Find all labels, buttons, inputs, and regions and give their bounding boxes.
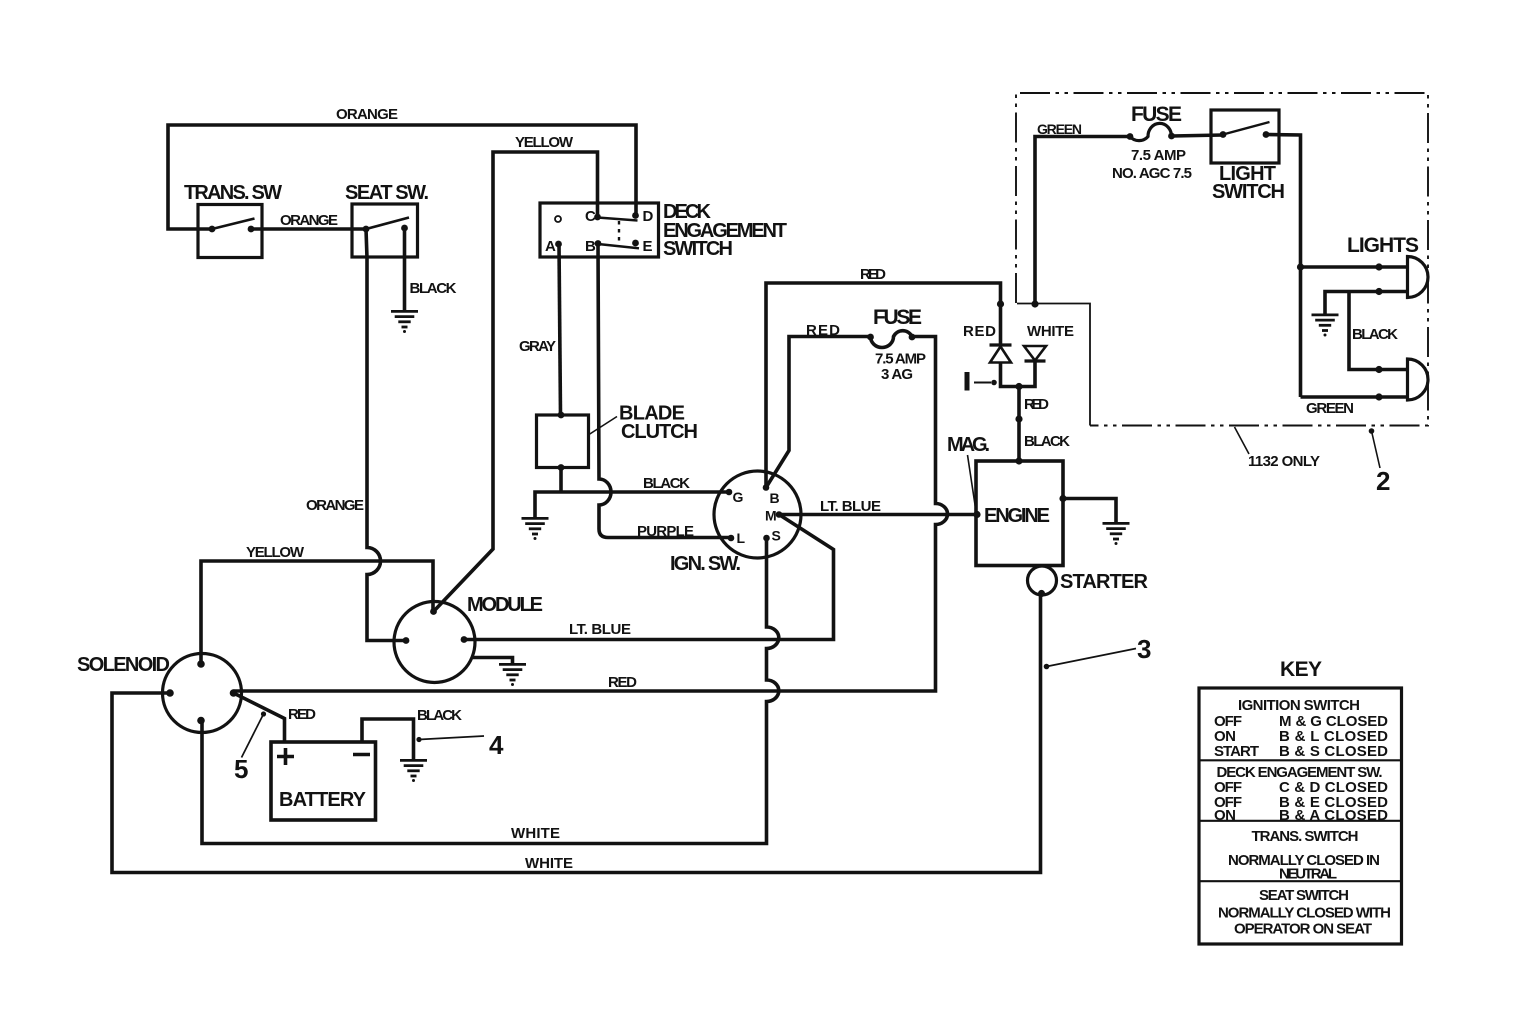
svg-text:G: G [733,489,744,505]
component BLADE CLUTCH box [537,403,699,471]
ground (engine) [1103,523,1130,545]
callout 5 leader [234,711,266,784]
diode D-white (WHITE wire) [1024,323,1074,361]
svg-text:STARTER: STARTER [1060,571,1149,593]
svg-text:FUSE: FUSE [873,306,922,329]
starter STARTER circle [1028,566,1149,597]
svg-text:RED: RED [860,266,886,283]
svg-text:SEAT SWITCH: SEAT SWITCH [1259,887,1349,904]
svg-text:RED: RED [608,674,637,691]
switch LIGHT SWITCH box [1211,110,1285,203]
junction node lights feed [1297,263,1304,270]
wire BLACK: top lamp lower terminal down to bottom lamp upper terminal [1349,292,1408,370]
svg-text:BLACK: BLACK [643,475,690,492]
svg-text:E: E [643,238,653,255]
wire ORANGE: trans.sw right terminal to seat.sw left terminal [251,227,366,231]
svg-text:NO. AGC 7.5: NO. AGC 7.5 [1112,165,1192,182]
svg-text:B: B [770,490,780,506]
wire YELLOW: solenoid top terminal up and right to module top terminal [201,561,433,664]
wire LT. BLUE: ign M diagonal down to module right terminal [464,515,834,640]
svg-text:SWITCH: SWITCH [1212,181,1285,203]
junction node diode bottom [1015,383,1022,390]
svg-text:PURPLE: PURPLE [637,523,694,540]
svg-text:KEY: KEY [1280,658,1322,681]
svg-text:NORMALLY CLOSED WITH: NORMALLY CLOSED WITH [1218,905,1391,922]
svg-text:BLACK: BLACK [1352,326,1398,343]
svg-text:LIGHTS: LIGHTS [1347,234,1419,257]
boundary 1132-only dash-dot box [1016,93,1428,426]
wire ORANGE top loop: trans.sw left terminal up across to deck switch D [168,125,636,229]
wire: light switch down to lamps junction [1266,135,1301,398]
svg-text:4: 4 [489,730,504,760]
wire RED: solenoid right terminal diagonal to battery + [234,693,285,742]
switch SEAT SW. box [345,182,429,257]
svg-text:ORANGE: ORANGE [280,212,338,229]
callout 1 leader [965,372,997,391]
svg-text:START: START [1214,743,1259,760]
svg-text:LT. BLUE: LT. BLUE [569,621,631,638]
svg-text:B & S CLOSED: B & S CLOSED [1279,743,1388,760]
wire GRAY: deck switch A down to blade clutch [559,244,561,415]
svg-text:WHITE: WHITE [1027,323,1074,340]
node red/black colour change [1015,415,1022,422]
label MAG. with leader [947,434,990,508]
wire BLACK: ign. sw. G left to ground [535,492,729,518]
lamp top light [1375,257,1428,298]
label 1132 ONLY with leader [1235,427,1321,470]
wire YELLOW top: deck switch C up, across, down to module top [434,152,598,612]
svg-text:WHITE: WHITE [511,825,560,842]
fuse FUSE 7.5 AMP NO. AGC 7.5 [1112,103,1192,182]
svg-text:C: C [585,208,596,225]
svg-text:BLACK: BLACK [417,707,462,724]
svg-text:FUSE: FUSE [1131,103,1182,126]
svg-text:WHITE: WHITE [525,855,573,872]
svg-text:GREEN: GREEN [1037,121,1082,137]
svg-text:GRAY: GRAY [519,338,556,355]
svg-text:3 AG: 3 AG [881,366,913,383]
svg-text:GREEN: GREEN [1306,400,1354,417]
svg-text:CLUTCH: CLUTCH [621,421,698,443]
callout 2 leader [1369,428,1391,496]
svg-text:BLACK: BLACK [1024,433,1070,450]
switch DECK ENGAGEMENT SWITCH box [540,201,787,260]
wire WHITE: solenoid left terminal down and across to starter [112,594,1041,873]
wire: red diode bottom to junction [1001,361,1036,387]
engine ENGINE box [973,457,1066,565]
wire RED: ign B up, across top, down to red diode [766,283,1001,488]
battery BATTERY box [271,742,376,820]
wire: fuse to light switch [1172,135,1224,136]
wire: junction to top lamp upper terminal [1301,265,1408,269]
svg-text:M: M [765,508,777,524]
fuse FUSE 7.5 AMP 3 AG terminals [867,306,926,383]
svg-text:2: 2 [1376,466,1390,496]
svg-text:YELLOW: YELLOW [515,134,574,151]
svg-text:RED: RED [963,323,996,340]
ground (battery) [400,760,427,782]
svg-text:A: A [545,238,556,255]
key table KEY [1199,658,1402,944]
wire RED/BLACK: diode junction down to engine top [1017,387,1021,462]
junction node green/white [1031,300,1038,307]
ignition switch IGN. SW. circle [670,471,801,575]
wire: top lamp lower terminal to ground [1325,292,1408,315]
callout 4 leader [416,730,504,760]
wire BLACK: seat switch right terminal to ground [403,228,407,311]
svg-text:RED: RED [806,322,840,339]
svg-text:TRANS. SWITCH: TRANS. SWITCH [1252,828,1359,845]
svg-text:7.5 AMP: 7.5 AMP [1131,147,1186,164]
wire WHITE: ign S down (hops) to white run back to solenoid bottom [202,538,779,844]
wire GREEN: bottom lamp lower terminal back to junction [1301,395,1408,399]
wire: blade clutch bottom stub to black wire [559,468,563,493]
wire: box-border link from left border to lower border corner [1017,304,1090,426]
svg-text:ON: ON [1214,807,1236,824]
diode D-red (RED wire) [963,323,1012,363]
svg-text:SEAT SW.: SEAT SW. [345,182,429,204]
svg-text:B: B [585,238,596,255]
wire RED fuse branch: ign B diagonal up, to fuse, right and long down-left red feed to solenoid [234,331,948,691]
svg-text:SOLENOID: SOLENOID [77,654,170,676]
svg-text:ORANGE: ORANGE [336,106,398,123]
wire GREEN/WHITE: white diode top up into 1132 box to fuse [1035,137,1130,305]
module MODULE circle [394,594,543,683]
svg-text:3: 3 [1137,634,1151,664]
wire: engine right terminal to ground [1063,499,1116,524]
svg-text:NEUTRAL: NEUTRAL [1279,866,1337,883]
svg-text:RED: RED [1024,396,1049,413]
ground (module) [499,664,526,686]
svg-text:1132 ONLY: 1132 ONLY [1248,453,1320,470]
svg-text:RED: RED [288,706,316,723]
svg-text:7.5 AMP: 7.5 AMP [875,351,926,368]
svg-text:L: L [737,530,746,546]
svg-text:IGN. SW.: IGN. SW. [670,553,741,575]
svg-text:B & A CLOSED: B & A CLOSED [1279,807,1388,824]
svg-text:LT. BLUE: LT. BLUE [820,498,881,515]
svg-text:OPERATOR ON SEAT: OPERATOR ON SEAT [1234,921,1372,938]
svg-text:ORANGE: ORANGE [306,497,364,514]
svg-text:BATTERY: BATTERY [279,789,367,811]
wire LT. BLUE: ign M right to engine [779,513,977,517]
lamp bottom light [1375,359,1428,401]
svg-text:TRANS. SW: TRANS. SW [184,182,282,204]
ground (blade clutch / black wire) [522,518,549,540]
svg-text:BLACK: BLACK [410,280,457,297]
wire ORANGE: seat switch left terminal down (hop over yellow) to module left terminal [366,229,406,641]
callout 3 leader [1044,634,1152,669]
svg-text:MAG.: MAG. [947,434,990,456]
svg-text:IGNITION SWITCH: IGNITION SWITCH [1238,697,1360,714]
ground (seat switch) [391,311,418,333]
svg-text:5: 5 [234,754,248,784]
svg-text:SWITCH: SWITCH [663,238,733,260]
svg-text:MODULE: MODULE [467,594,543,616]
ground (lights) [1312,315,1339,337]
svg-text:S: S [772,528,781,544]
junction node on red vertical [997,300,1004,307]
solenoid SOLENOID circle [77,654,242,733]
wire PURPLE: deck switch B down (hop over black) to ign. sw. L [598,244,731,538]
wire: module lower right to ground [471,658,513,665]
wire BLACK: battery - up right and down to ground [362,719,414,760]
svg-text:D: D [643,208,654,225]
svg-text:YELLOW: YELLOW [246,544,305,561]
svg-text:ENGINE: ENGINE [984,505,1050,527]
transistor switch TRANS. SW box [184,182,282,258]
